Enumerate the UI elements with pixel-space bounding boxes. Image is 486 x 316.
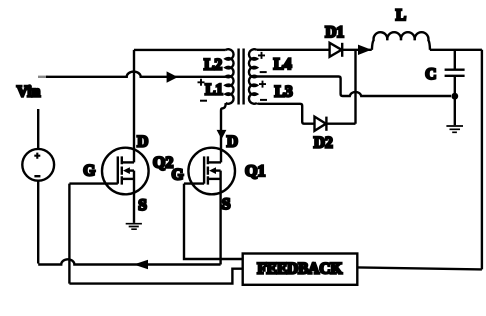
svg-text:D: D xyxy=(137,134,148,151)
transformer secondary winding L4/L3 xyxy=(249,49,257,104)
polarity - L1 xyxy=(200,100,207,102)
wire D1/D2 junction vertical xyxy=(354,50,356,124)
svg-text:D1: D1 xyxy=(325,24,344,41)
svg-text:FEEDBACK: FEEDBACK xyxy=(257,260,342,277)
wire Q2 drain vertical xyxy=(133,50,135,162)
wire Vin vertical to source xyxy=(37,109,39,149)
wire L3 bottom to D2 xyxy=(257,103,315,124)
svg-text:D2: D2 xyxy=(314,134,333,151)
wire feedback right xyxy=(358,267,482,269)
svg-text:C: C xyxy=(425,66,436,83)
feedback arrow left xyxy=(134,260,148,270)
wire primary bottom tail xyxy=(221,103,226,162)
wire output top xyxy=(430,49,482,51)
current arrow into L xyxy=(358,45,371,55)
capacitor C stub top xyxy=(454,50,456,69)
wire Vin gray lead-in xyxy=(38,76,48,78)
wire output right vertical xyxy=(481,50,483,270)
inductor L xyxy=(372,32,430,50)
ground Q2 xyxy=(126,224,142,230)
wire arrow rail H2 xyxy=(38,259,220,264)
diode D2 xyxy=(315,117,327,131)
capacitor C stub bottom xyxy=(454,77,456,99)
polarity + L4 xyxy=(258,52,265,59)
transformer T1 primary winding L2/L1 xyxy=(226,49,234,104)
wire top rail to transformer primary xyxy=(134,49,226,51)
voltage source V1 xyxy=(22,149,54,181)
MOSFET Q1 xyxy=(184,148,235,265)
polarity + L1 xyxy=(198,79,205,86)
wire Q2 gate down xyxy=(68,184,70,284)
svg-text:D: D xyxy=(227,134,238,151)
MOSFET Q2 xyxy=(69,148,148,223)
ground output xyxy=(446,126,463,132)
svg-text:Q2: Q2 xyxy=(153,155,173,172)
svg-text:L4: L4 xyxy=(274,56,292,73)
wire D1 cathode to L xyxy=(342,49,372,51)
polarity - L4 xyxy=(260,71,267,73)
svg-text:L: L xyxy=(396,7,406,24)
wire Vin horizontal with hop over Q2 drain line xyxy=(46,72,226,77)
wire Q1 gate down to feedback xyxy=(184,184,243,259)
wire center tap to output dot with hop over D-junction line xyxy=(257,77,451,97)
wire dot to ground xyxy=(454,99,456,125)
svg-text:S: S xyxy=(138,197,147,214)
polarity + L3 xyxy=(259,81,266,88)
current arrow on Vin wire xyxy=(167,71,178,82)
diode D1 xyxy=(330,43,342,57)
svg-text:L3: L3 xyxy=(275,83,293,100)
wire D2 cathode to junction xyxy=(326,122,355,124)
FEEDBACK box xyxy=(243,254,358,285)
transformer core xyxy=(239,49,244,105)
node junction dot xyxy=(451,93,458,100)
wire secondary top to D1 xyxy=(257,49,330,51)
svg-text:G: G xyxy=(83,162,95,179)
capacitor C plates xyxy=(445,70,465,76)
svg-text:L1: L1 xyxy=(205,82,223,99)
svg-text:Vin: Vin xyxy=(17,83,41,100)
svg-text:Q1: Q1 xyxy=(245,163,265,180)
wire source bottom to rail xyxy=(37,181,39,264)
polarity - L3 xyxy=(260,99,267,101)
down arrow into Q1 drain xyxy=(217,130,227,139)
svg-text:G: G xyxy=(172,167,184,184)
svg-text:L2: L2 xyxy=(204,56,222,73)
wire lower rail to feedback xyxy=(69,269,242,284)
svg-text:S: S xyxy=(222,196,231,213)
